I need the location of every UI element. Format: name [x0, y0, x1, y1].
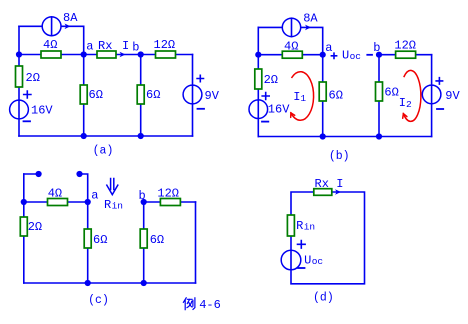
- svg-text:oc: oc: [350, 51, 362, 62]
- voltage source Uoc (d): [281, 241, 323, 270]
- resistor 4Ω (c): [48, 187, 68, 206]
- wire: (a) left rail: [18, 26, 20, 136]
- voltage source 16V (a): [10, 91, 54, 121]
- resistor 12Ω (b): [394, 39, 416, 59]
- current source 8A (a): [42, 11, 78, 36]
- svg-text:16V: 16V: [268, 103, 290, 117]
- resistor 2Ω (c): [20, 217, 42, 236]
- svg-text:(b): (b): [329, 150, 350, 163]
- svg-text:I: I: [336, 177, 343, 191]
- mesh current I1 (b): [291, 72, 314, 121]
- resistor 12Ω (a): [154, 38, 176, 58]
- svg-text:8A: 8A: [63, 11, 78, 25]
- resistor 6Ω (c, node-a branch): [84, 229, 107, 248]
- wire: (b) right rail: [431, 55, 433, 137]
- node dot: (a) left rail / main junction: [16, 51, 22, 57]
- svg-text:a: a: [325, 41, 332, 55]
- wire: (a) node-a middle branch: [83, 55, 85, 137]
- example label 例 4-6: [183, 298, 220, 312]
- node dot: (c) bottom node-b junction: [141, 280, 147, 286]
- resistor 4Ω (b): [282, 40, 302, 59]
- svg-text:6Ω: 6Ω: [384, 86, 398, 100]
- voltage source 9V (b): [422, 78, 460, 109]
- node a (c): [85, 189, 99, 206]
- svg-text:6Ω: 6Ω: [89, 88, 103, 102]
- svg-text:6Ω: 6Ω: [329, 88, 343, 102]
- node dot: (c) left rail / main junction: [21, 199, 27, 205]
- svg-text:2Ω: 2Ω: [26, 71, 40, 85]
- svg-text:U: U: [342, 49, 349, 63]
- resistor Rx (a): [97, 39, 116, 58]
- svg-text:I: I: [399, 96, 406, 110]
- wire: (c) bottom rail: [24, 282, 196, 284]
- resistor 6Ω (a, node-b branch): [137, 85, 160, 104]
- svg-text:a: a: [86, 40, 93, 54]
- node dot: (b) bottom node-a junction: [320, 133, 326, 139]
- svg-text:Rx: Rx: [98, 39, 112, 53]
- node dot: (c) left open stub terminal: [36, 171, 42, 177]
- resistor Rx (d): [314, 177, 332, 195]
- wire: (c) main left segment to node a: [24, 201, 88, 203]
- svg-text:2: 2: [406, 99, 412, 110]
- node a (a): [81, 40, 94, 58]
- wire: (a) bottom rail: [19, 135, 193, 137]
- svg-text:9V: 9V: [205, 89, 220, 103]
- wire: (c) top-left open stub: [24, 173, 39, 175]
- wire: (b) left rail: [257, 27, 259, 136]
- current arrow I (d): [335, 177, 344, 195]
- svg-text:Rx: Rx: [315, 177, 329, 191]
- Rin looking-in double arrow (c): [104, 179, 123, 213]
- current arrow I (a): [120, 39, 130, 57]
- node a (b): [320, 41, 333, 58]
- node dot: (c) right open stub terminal: [76, 171, 82, 177]
- svg-text:12Ω: 12Ω: [154, 38, 176, 52]
- svg-text:6Ω: 6Ω: [93, 233, 107, 247]
- svg-text:R: R: [296, 219, 303, 233]
- svg-text:4Ω: 4Ω: [43, 38, 57, 52]
- voltage source 16V (b): [249, 93, 290, 122]
- node dot: (b) left rail / main junction: [255, 52, 261, 58]
- svg-text:8A: 8A: [303, 12, 318, 26]
- wire: (a) right rail: [192, 55, 194, 137]
- svg-text:I: I: [293, 90, 300, 104]
- svg-text:6Ω: 6Ω: [146, 88, 160, 102]
- resistor 6Ω (b, node-a branch): [319, 82, 343, 102]
- wire: (d) loop rectangle: [291, 192, 365, 284]
- svg-text:4-6: 4-6: [199, 298, 221, 312]
- svg-text:b: b: [132, 41, 139, 55]
- svg-text:16V: 16V: [31, 104, 53, 118]
- svg-text:2Ω: 2Ω: [28, 220, 42, 234]
- resistor 12Ω (c): [157, 187, 180, 206]
- svg-text:9V: 9V: [445, 89, 460, 103]
- node dot: (a) bottom node-b junction: [138, 133, 144, 139]
- svg-text:12Ω: 12Ω: [394, 39, 416, 53]
- svg-text:2Ω: 2Ω: [264, 73, 278, 87]
- resistor 4Ω (a): [41, 38, 61, 58]
- wire: (b) main right segment node b to right rail: [379, 54, 432, 56]
- svg-text:R: R: [104, 198, 111, 212]
- svg-text:in: in: [304, 222, 315, 233]
- current source 8A (b): [282, 12, 318, 37]
- node b (b): [373, 41, 382, 58]
- svg-text:b: b: [139, 189, 146, 203]
- node dot: (b) bottom node-b junction: [376, 133, 382, 139]
- svg-text:1: 1: [300, 93, 306, 104]
- wire: (b) main left segment to node a: [258, 54, 322, 56]
- node b (c): [139, 189, 147, 205]
- wire: (c) left rail: [23, 174, 25, 283]
- svg-text:4Ω: 4Ω: [284, 40, 298, 54]
- node b (a): [132, 41, 143, 58]
- svg-text:4Ω: 4Ω: [48, 187, 62, 201]
- svg-text:b: b: [373, 41, 380, 55]
- resistor 2Ω (b): [255, 69, 278, 89]
- wire: (c) right rail: [195, 202, 197, 283]
- wire: (c) node-a middle branch: [87, 202, 89, 283]
- wire: (a) node-b middle branch: [140, 55, 142, 137]
- svg-text:oc: oc: [312, 256, 324, 267]
- resistor Rin (d): [287, 215, 315, 236]
- wire: (a) top 8A branch: [19, 26, 84, 54]
- open-circuit voltage label + Uoc - (b): [331, 49, 372, 63]
- wire: (b) node-b middle branch: [378, 55, 380, 137]
- svg-text:(d): (d): [313, 292, 334, 305]
- wire: (c) top-right open stub to node a: [80, 174, 88, 202]
- wire: (c) main right segment node b to right rail: [144, 201, 196, 203]
- voltage source 9V (a): [183, 75, 220, 109]
- wire: (b) node-a middle branch: [322, 55, 324, 137]
- svg-text:I: I: [122, 39, 129, 53]
- resistor 6Ω (b, node-b branch): [376, 82, 399, 101]
- mesh current I2 (b): [399, 70, 421, 121]
- wire: (c) node-b middle branch: [143, 202, 145, 283]
- svg-text:(a): (a): [93, 145, 114, 158]
- svg-text:a: a: [91, 189, 98, 203]
- wire: (b) top 8A branch: [258, 27, 322, 54]
- resistor 6Ω (a, node-a branch): [80, 85, 103, 104]
- resistor 6Ω (c, node-b branch): [140, 229, 164, 248]
- svg-text:(c): (c): [88, 294, 109, 307]
- svg-text:6Ω: 6Ω: [150, 233, 164, 247]
- wire: (b) bottom rail: [258, 136, 431, 138]
- node dot: (c) bottom node-a junction: [85, 280, 91, 286]
- svg-text:U: U: [304, 254, 311, 268]
- svg-text:in: in: [112, 201, 123, 212]
- svg-text:12Ω: 12Ω: [157, 187, 179, 201]
- node dot: (a) bottom node-a junction: [81, 133, 87, 139]
- wire: (a) main horizontal a-b rail: [19, 54, 193, 56]
- resistor 2Ω (a): [16, 66, 40, 87]
